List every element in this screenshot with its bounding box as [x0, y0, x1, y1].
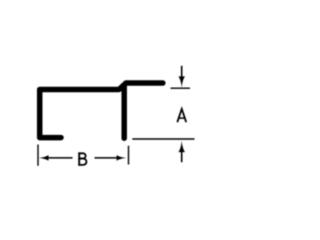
dimension B right arrow: [95, 157, 118, 159]
profile right leg: [121, 86, 127, 138]
dimension A bottom extension line: [132, 138, 194, 140]
label A: [177, 109, 186, 122]
label B: [78, 152, 86, 165]
profile outline: [40, 83, 163, 138]
dimension B left arrow: [39, 155, 49, 161]
dimension A top extension line: [171, 87, 191, 89]
dimension B left extension line: [37, 145, 39, 166]
dimension B right extension line: [128, 146, 130, 165]
dimension A bottom arrow: [178, 141, 185, 152]
dimension A top arrow: [181, 66, 183, 78]
